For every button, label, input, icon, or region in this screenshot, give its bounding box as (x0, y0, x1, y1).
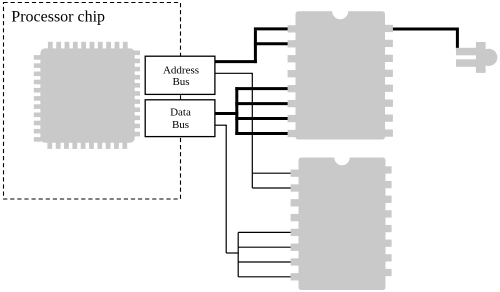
Data Bus box (145, 100, 215, 137)
wire: connector drop (thick vertical) (456, 30, 459, 48)
memory chip U3 (bottom DIP package) body with notch (299, 158, 386, 291)
wire: data line to U2 pin 8 (235, 132, 290, 135)
connector plug (gray) (456, 42, 497, 73)
wire: address bus riser (thick vertical) (254, 30, 257, 63)
wire: data ladder vertical (237, 232, 239, 276)
wire: data line to U3 pin 7 (238, 261, 291, 263)
wire: data line to U3 pin 8 (238, 276, 291, 278)
CPU U1 (QFP package) body (40, 48, 134, 142)
wire: address line to U3 pin 2 (252, 187, 291, 189)
wire: data branch to lower memory (thin, exits Data Bus box) (215, 124, 227, 126)
wire: data line to U2 pin 7 (235, 117, 290, 120)
svg-text:Processor chip: Processor chip (11, 8, 105, 25)
wire: thin address riser down (251, 73, 253, 188)
wire: thin data jog to ladder (226, 252, 239, 254)
wire: data line to U2 pin 6 (235, 102, 290, 105)
wire: data bus trunk (thick, exits Data Bus box) (215, 112, 238, 115)
wire: thin data riser down (225, 125, 227, 253)
wire: data line to U3 pin 5 (238, 231, 291, 233)
svg-text:Address: Address (163, 65, 199, 77)
memory chip U3 pins (291, 166, 392, 280)
wire: address line to U2 pin 2 (254, 42, 291, 45)
wire: U2 pin 9 out to connector (thick) (393, 27, 459, 30)
wire: address line to U2 pin 1 (254, 27, 291, 30)
wire: data bus riser (thick vertical) (235, 87, 238, 135)
wire: data line to U3 pin 6 (238, 246, 291, 248)
wire: address branch to lower memory (thin, exits Address Bus box) (215, 72, 253, 74)
memory chip U2 (top DIP package) body with notch (296, 11, 386, 139)
memory chip U2 pins (288, 25, 393, 137)
processor chip boundary (dashed box) (4, 3, 181, 200)
svg-text:Bus: Bus (172, 76, 189, 88)
wire: data line to U2 pin 5 (235, 87, 290, 90)
wire: address bus trunk (thick, exits Address Bus box) (215, 60, 257, 63)
wire: address line to U3 pin 1 (252, 172, 291, 174)
svg-text:Data: Data (170, 107, 191, 119)
CPU U1 pins (34, 42, 140, 149)
Address Bus box (145, 56, 215, 94)
svg-text:Bus: Bus (172, 119, 189, 131)
